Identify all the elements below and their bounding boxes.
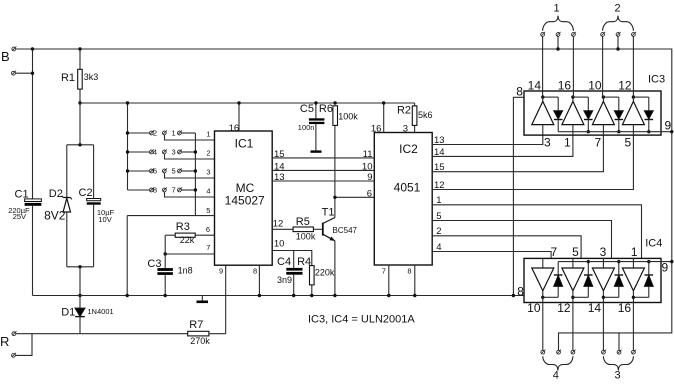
svg-text:C5: C5 xyxy=(300,103,314,115)
wire IC2 pin 1 to IC4 input xyxy=(432,205,641,259)
wire IC2 pin 8 to ground rail xyxy=(414,265,416,296)
wire IC3 driver 1 output to pad (crosses rail) xyxy=(542,36,544,97)
wire top middle pad group2 to rail xyxy=(617,36,619,49)
wire IC2 pin 12 to IC3 input 4 xyxy=(432,135,633,189)
svg-text:R5: R5 xyxy=(296,216,310,228)
svg-text:14: 14 xyxy=(434,147,445,158)
junction IC3 clamp rail 2 xyxy=(587,130,590,133)
svg-text:12: 12 xyxy=(557,301,571,315)
wire ground rail xyxy=(33,295,525,297)
resistor R7 270k xyxy=(188,331,226,336)
wire right pad to common bus xyxy=(181,189,195,191)
junction IC2 pin16 on 8V rail xyxy=(382,101,385,104)
node switch pad mid row 1 xyxy=(162,130,166,135)
junction lower B pad xyxy=(31,72,34,75)
brace output group 2 xyxy=(603,16,634,31)
svg-text:T1: T1 xyxy=(322,206,335,218)
driver IC3-A buffer triangle xyxy=(532,97,554,135)
wire right pad to common bus xyxy=(181,151,195,153)
svg-text:7: 7 xyxy=(172,186,176,195)
junction IC3-pin8 riser on ground rail xyxy=(512,294,515,297)
junction group2 common on rail xyxy=(616,47,619,50)
junction IC3 clamp rail 4 xyxy=(647,130,650,133)
capacitor C3 1n8 xyxy=(157,254,173,296)
IC box IC3 ULN2001A upper xyxy=(524,91,661,135)
node switch pad right row 2 xyxy=(178,149,183,154)
junction IC1 pin8 on ground rail xyxy=(258,294,261,297)
wire IC2 pin 4 to IC4 input xyxy=(432,252,551,259)
brace output group 4 xyxy=(543,356,573,370)
svg-text:10: 10 xyxy=(362,162,373,173)
svg-text:7: 7 xyxy=(382,266,386,275)
diode IC3 clamp 4 xyxy=(633,97,653,132)
svg-text:145027: 145027 xyxy=(225,194,265,208)
junction left bus row 1 xyxy=(126,131,129,134)
resistor R4 220k xyxy=(310,266,315,296)
svg-text:13: 13 xyxy=(434,135,445,146)
node output pad bottom 5 xyxy=(617,350,622,355)
svg-text:1N4001: 1N4001 xyxy=(87,307,113,316)
wire IC1 pin 13 to IC2 pin 9 xyxy=(272,180,374,182)
wire IC2 pin 5 to IC4 input xyxy=(432,221,611,259)
resistor R1 3k3 xyxy=(78,49,83,103)
svg-text:7: 7 xyxy=(206,243,210,252)
junction left bus row 3 xyxy=(126,169,129,172)
wire right pad to common bus xyxy=(181,170,195,172)
svg-text:C1: C1 xyxy=(15,189,29,201)
svg-text:2: 2 xyxy=(206,149,210,158)
junction IC4 driver 2 output node xyxy=(571,296,574,299)
svg-text:14: 14 xyxy=(528,78,542,92)
driver IC3-B buffer triangle xyxy=(562,97,584,135)
svg-text:5k6: 5k6 xyxy=(418,110,433,120)
wire split to D2 and C2 tops xyxy=(67,144,94,146)
junction right bus xyxy=(194,188,197,191)
svg-text:1: 1 xyxy=(564,135,571,149)
junction D2/C2 bottom node xyxy=(78,265,81,268)
wire T1 collector up to R6 bottom xyxy=(334,125,336,217)
svg-text:13: 13 xyxy=(274,172,285,183)
wire elbow mid pad to IC1 pin 3 xyxy=(165,173,215,178)
driver IC3-C buffer triangle xyxy=(592,97,614,135)
wire IC1 pin 8 to ground rail xyxy=(258,265,260,295)
junction collector / IC2 pin6 xyxy=(333,196,336,199)
svg-text:9: 9 xyxy=(219,267,223,276)
svg-text:7: 7 xyxy=(595,135,602,149)
node output pad bottom 3 xyxy=(571,350,576,355)
zener diode D2 8V2 xyxy=(62,145,72,267)
driver IC4-C buffer triangle xyxy=(592,258,614,350)
junction IC4 clamp rail 4 xyxy=(647,260,650,263)
junction IC4 driver 3 output node xyxy=(602,296,605,299)
svg-text:3: 3 xyxy=(403,123,408,134)
svg-text:2: 2 xyxy=(153,129,157,138)
svg-text:8: 8 xyxy=(516,85,523,99)
svg-text:5: 5 xyxy=(436,211,441,222)
svg-text:8: 8 xyxy=(407,266,411,275)
junction right bus xyxy=(194,150,197,153)
svg-text:6: 6 xyxy=(367,189,372,200)
junction rail/riser xyxy=(31,47,34,50)
svg-text:16: 16 xyxy=(558,78,572,92)
svg-text:10: 10 xyxy=(588,78,602,92)
svg-text:R1: R1 xyxy=(61,72,75,84)
svg-text:5: 5 xyxy=(572,245,579,259)
node output pad bottom 1 xyxy=(541,350,546,355)
svg-text:D1: D1 xyxy=(61,307,75,319)
wire IC1 pin 10 to C4 and R4 xyxy=(272,251,312,266)
wire IC2 pin 2 to IC4 input xyxy=(432,236,581,259)
svg-text:3: 3 xyxy=(172,148,176,157)
wire R pad to R7 xyxy=(16,333,188,335)
junction R4 on ground rail xyxy=(310,294,313,297)
node R terminal pad 2 xyxy=(12,353,17,358)
node output pad top 5 xyxy=(616,32,621,36)
svg-text:9: 9 xyxy=(367,172,372,183)
wire row 4 from left bus to even pad xyxy=(128,189,150,191)
diode IC4 clamp 3 xyxy=(603,262,623,298)
wire IC3 pin 8 to ground rail (riser x=513) xyxy=(513,97,524,295)
node output pad top 2 xyxy=(556,32,561,36)
diode D1 1N4001 xyxy=(75,296,85,334)
svg-text:100n: 100n xyxy=(298,123,315,132)
svg-text:IC3, IC4 = ULN2001A: IC3, IC4 = ULN2001A xyxy=(308,314,415,326)
svg-text:3k3: 3k3 xyxy=(84,72,99,82)
wire IC1 pin 5 line to ground riser xyxy=(127,215,214,217)
svg-text:15: 15 xyxy=(434,162,445,173)
wire IC3 driver 4 output to pad (crosses rail) xyxy=(632,36,634,97)
svg-text:IC4: IC4 xyxy=(645,238,662,250)
junction IC4 driver 1 output node xyxy=(541,296,544,299)
capacitor C4 3n9 xyxy=(286,251,302,296)
wire top supply rail from B to right edge, down right edge, to output commons xyxy=(16,49,672,350)
capacitor C1 220uF electrolytic xyxy=(25,199,42,296)
svg-text:220k: 220k xyxy=(315,268,335,278)
wire R7 right end up to IC1 pin 9 crossing ground rail xyxy=(225,265,227,334)
svg-text:22k: 22k xyxy=(180,235,195,245)
svg-text:4: 4 xyxy=(553,369,559,381)
svg-text:10: 10 xyxy=(274,238,285,249)
svg-text:8: 8 xyxy=(153,186,157,195)
junction R6 on 8V rail xyxy=(333,101,336,104)
diode IC3 clamp 2 xyxy=(573,97,593,132)
driver IC4-A buffer triangle xyxy=(532,258,554,350)
node switch pad mid row 4 xyxy=(162,187,166,192)
junction R1 bottom on 8V rail xyxy=(78,101,81,104)
svg-text:4: 4 xyxy=(206,187,210,196)
node output pad top 6 xyxy=(632,32,637,36)
svg-text:11: 11 xyxy=(363,149,373,160)
diode IC3 clamp 1 xyxy=(543,97,563,132)
svg-text:3: 3 xyxy=(544,135,551,149)
node switch pad 8 xyxy=(149,187,153,192)
svg-text:100k: 100k xyxy=(338,112,358,122)
junction R1 top on rail xyxy=(78,47,81,50)
wire IC1 pin 15 to IC2 pin 11 xyxy=(272,157,374,159)
node B+ terminal pad 1 xyxy=(12,46,16,50)
svg-text:D2: D2 xyxy=(49,188,63,200)
node switch pad right row 3 xyxy=(178,168,183,173)
IC box IC2 4051 xyxy=(374,133,432,266)
node switch pad mid row 3 xyxy=(162,168,166,173)
junction IC4 clamp rail 3 xyxy=(617,260,620,263)
wire bottom common line branch to group3 middle pad xyxy=(618,333,620,351)
svg-text:3: 3 xyxy=(600,245,607,259)
svg-text:6: 6 xyxy=(206,225,210,234)
svg-text:C3: C3 xyxy=(147,258,161,270)
svg-text:12: 12 xyxy=(434,180,445,191)
wire IC3 driver 3 output to pad (crosses rail) xyxy=(602,36,604,97)
wire right common bus xyxy=(194,133,196,216)
junction on ground rail above D1 xyxy=(78,294,81,297)
svg-text:5: 5 xyxy=(172,167,176,176)
svg-text:9: 9 xyxy=(662,261,669,275)
junction right bus xyxy=(194,169,197,172)
svg-text:R4: R4 xyxy=(297,256,311,268)
svg-text:8V2: 8V2 xyxy=(44,209,66,223)
junction T1 emitter on ground rail xyxy=(333,294,336,297)
svg-text:5: 5 xyxy=(206,206,210,215)
wire elbow mid pad to IC1 pin 4 xyxy=(165,192,215,197)
svg-text:1: 1 xyxy=(553,2,559,14)
svg-text:100k: 100k xyxy=(296,231,316,241)
wire left address bus from 8V rail xyxy=(127,103,129,190)
driver IC4-D buffer triangle xyxy=(622,258,644,350)
svg-text:5: 5 xyxy=(625,135,632,149)
resistor R3 22k xyxy=(165,233,214,254)
svg-text:4051: 4051 xyxy=(394,180,421,194)
wire IC1 pin 16 to 8V rail xyxy=(238,103,240,131)
junction IC3 driver 2 output node xyxy=(571,95,574,98)
brace output group 3 xyxy=(603,356,633,370)
svg-text:8: 8 xyxy=(517,284,524,298)
junction C5 on 8V rail xyxy=(314,101,317,104)
svg-text:16: 16 xyxy=(618,301,632,315)
junction IC1 pin16 on 8V rail xyxy=(237,101,240,104)
svg-text:4: 4 xyxy=(153,148,157,157)
node switch pad right row 4 xyxy=(178,187,183,192)
svg-text:6: 6 xyxy=(153,167,157,176)
capacitor C5 100n xyxy=(309,103,325,152)
svg-text:15: 15 xyxy=(274,149,285,160)
wire IC2 pin 7 to ground rail xyxy=(388,265,390,296)
IC box IC1 MC145027 xyxy=(215,131,273,265)
svg-text:C2: C2 xyxy=(79,187,93,199)
svg-text:4: 4 xyxy=(436,242,441,253)
node R terminal pad 1 xyxy=(12,331,17,336)
svg-text:12: 12 xyxy=(273,218,284,229)
junction IC4 driver 4 output node xyxy=(632,296,635,299)
junction IC3 driver 3 output node xyxy=(602,95,605,98)
svg-text:12: 12 xyxy=(618,78,632,92)
svg-text:IC1: IC1 xyxy=(235,137,254,151)
svg-text:8: 8 xyxy=(253,266,257,275)
junction IC2 pin7 on ground rail xyxy=(387,294,390,297)
brace output group 1 xyxy=(543,16,574,31)
wire lower B pad to rail riser xyxy=(15,72,32,74)
svg-text:R3: R3 xyxy=(176,221,190,233)
svg-text:B: B xyxy=(1,49,10,64)
svg-text:C4: C4 xyxy=(277,256,291,268)
wire riser x=32.5 from rail down to C1 xyxy=(32,49,34,199)
svg-text:3: 3 xyxy=(206,168,210,177)
resistor R5 100k xyxy=(293,227,323,232)
wire IC1 pin 14 to IC2 pin 10 xyxy=(272,169,374,171)
svg-text:IC3: IC3 xyxy=(648,74,665,86)
node switch pad mid row 2 xyxy=(162,149,166,154)
junction left bus on 8V rail xyxy=(126,101,129,104)
node output pad bottom 4 xyxy=(602,350,607,355)
wire IC4 clamp common rail to pin 9 xyxy=(558,261,672,263)
junction R3/C3/pin7 node xyxy=(164,252,167,255)
driver IC4-B buffer triangle xyxy=(562,258,584,350)
junction IC3 driver 1 output node xyxy=(541,95,544,98)
junction left bus row 2 xyxy=(126,150,129,153)
wire IC2 pin 14 to IC3 input 2 xyxy=(432,135,573,156)
node B+ terminal pad 2 xyxy=(12,71,17,76)
node output pad top 4 xyxy=(601,32,606,36)
wire from 8V rail down to D2/C2 split xyxy=(79,103,81,145)
svg-text:1: 1 xyxy=(206,130,210,139)
svg-text:R: R xyxy=(0,334,9,349)
wire IC2 pin 13 to IC3 input 1 xyxy=(432,135,543,144)
svg-text:1: 1 xyxy=(436,195,441,206)
wire IC1 pin 12 to R5 xyxy=(272,228,293,230)
junction C3 on ground rail xyxy=(164,294,167,297)
svg-text:R6: R6 xyxy=(319,103,333,115)
svg-text:14: 14 xyxy=(274,162,285,173)
svg-text:1n8: 1n8 xyxy=(178,265,193,275)
svg-text:16: 16 xyxy=(371,123,382,134)
wire IC2 pin 6 to T1 collector line xyxy=(335,196,374,198)
wire row 2 from left bus to even pad xyxy=(128,151,150,153)
svg-text:10V: 10V xyxy=(98,215,111,224)
resistor R2 5k6 xyxy=(412,103,417,133)
node switch pad right row 1 xyxy=(178,130,183,135)
junction C4 on ground rail xyxy=(292,294,295,297)
svg-text:14: 14 xyxy=(588,301,602,315)
svg-text:3: 3 xyxy=(614,369,620,381)
wire right pad to common bus xyxy=(181,132,195,134)
svg-text:9: 9 xyxy=(665,118,672,132)
svg-text:3n9: 3n9 xyxy=(277,275,292,285)
wire 8V2 regulated rail xyxy=(80,102,415,104)
svg-text:2: 2 xyxy=(436,226,441,237)
node switch pad 2 xyxy=(149,130,153,135)
svg-text:16: 16 xyxy=(229,123,240,134)
junction IC4 pin9 on right edge riser xyxy=(670,260,673,263)
junction IC4 clamp rail 2 xyxy=(587,260,590,263)
wire T1 emitter down to ground rail xyxy=(334,241,336,296)
wire row 3 from left bus to even pad xyxy=(128,170,150,172)
svg-text:BC547: BC547 xyxy=(333,226,358,235)
wire joining D2/C2 bottoms xyxy=(67,266,94,268)
svg-text:270k: 270k xyxy=(190,336,210,346)
junction IC3 clamp rail 3 xyxy=(617,130,620,133)
diode IC4 clamp 2 xyxy=(573,262,593,298)
node switch pad 6 xyxy=(149,168,153,173)
wire row 1 from left bus to even pad xyxy=(128,132,150,134)
ground symbol on ground rail xyxy=(197,296,209,302)
svg-text:25V: 25V xyxy=(13,212,26,221)
node output pad bottom 2 xyxy=(557,350,562,355)
svg-text:1: 1 xyxy=(172,129,176,138)
wire elbow mid pad to IC1 pin 1 xyxy=(165,135,215,140)
svg-text:2: 2 xyxy=(614,2,620,14)
svg-text:R2: R2 xyxy=(397,104,411,116)
wire IC1 pin 7 from R3/C3 node xyxy=(165,253,214,255)
svg-text:1: 1 xyxy=(631,245,638,259)
diode IC3 clamp 3 xyxy=(603,97,623,132)
wire IC2 pin 15 to IC3 input 3 xyxy=(432,135,603,172)
transistor T1 BC547 xyxy=(323,218,335,241)
junction IC3 pin9 on right edge riser xyxy=(670,130,673,133)
junction D2/C2 top split xyxy=(78,143,81,146)
resistor R6 100k xyxy=(333,106,338,126)
capacitor C2 10uF electrolytic xyxy=(87,145,101,267)
diode IC4 clamp 4 xyxy=(633,262,653,298)
wire lower R pad elbow xyxy=(15,334,32,356)
wire elbow mid pad to IC1 pin 2 xyxy=(165,154,215,159)
wire ground riser x=127 down to ground rail xyxy=(126,216,128,296)
svg-text:IC2: IC2 xyxy=(399,142,418,156)
junction IC3 driver 4 output node xyxy=(632,95,635,98)
wire IC3 clamp common rail to pin 9 xyxy=(558,131,672,133)
svg-text:10: 10 xyxy=(527,301,541,315)
diode IC4 clamp 1 xyxy=(543,262,563,298)
IC box IC4 ULN2001A lower xyxy=(524,258,661,302)
node output pad top 3 xyxy=(572,32,577,36)
svg-text:R7: R7 xyxy=(189,319,203,331)
wire IC2 pin 16 to 8V rail xyxy=(383,103,385,133)
driver IC3-D buffer triangle xyxy=(622,97,644,135)
node output pad top 1 xyxy=(541,32,546,36)
junction ground riser on ground rail xyxy=(126,294,129,297)
node switch pad 4 xyxy=(149,149,153,154)
svg-text:7: 7 xyxy=(550,245,557,259)
wire top middle pad group1 to rail xyxy=(557,36,559,49)
junction IC2 pin8 on ground rail xyxy=(413,294,416,297)
node output pad bottom 6 xyxy=(632,350,637,355)
wire IC3 driver 2 output to pad (crosses rail) xyxy=(572,36,574,97)
junction group1 common on rail xyxy=(556,47,559,50)
wire node down to ground rail xyxy=(79,267,81,296)
